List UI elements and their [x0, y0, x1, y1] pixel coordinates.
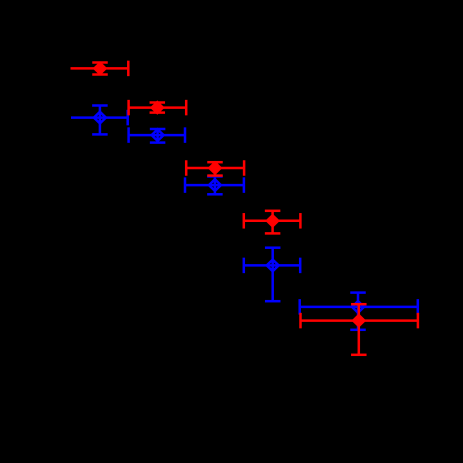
red series point 1 x-error bar: [71, 61, 129, 77]
blue series point 2 y-error bar: [150, 129, 166, 143]
red series point 5 y-error bar: [351, 304, 367, 355]
red filled diamond marker 1: [93, 61, 108, 75]
blue open diamond marker 5: [352, 301, 364, 313]
blue open diamond marker 2: [152, 129, 164, 141]
red filled diamond marker 3: [208, 161, 223, 175]
red filled diamond marker 5: [351, 313, 366, 327]
red series point 5 x-error bar: [301, 313, 418, 329]
red series point 4 y-error bar: [265, 211, 281, 234]
blue series point 2 x-error bar: [129, 127, 185, 143]
blue series point 5 x-error bar: [300, 299, 418, 315]
red series point 2 x-error bar: [129, 100, 187, 116]
red filled diamond marker 4: [265, 214, 280, 228]
red series point 3 x-error bar: [186, 160, 244, 176]
blue series point 4 y-error bar: [265, 248, 281, 302]
blue series point 4 x-error bar: [244, 258, 300, 274]
red series point 1 y-error bar: [92, 63, 108, 75]
blue series point 3 x-error bar: [185, 177, 244, 193]
red series point 2 y-error bar: [150, 103, 166, 113]
red series point 3 y-error bar: [207, 162, 223, 175]
blue series point 1 y-error bar: [92, 106, 108, 135]
blue series point 5 y-error bar: [350, 293, 366, 330]
blue series point 3 y-error bar: [207, 176, 223, 194]
red filled diamond marker 2: [150, 100, 165, 114]
blue open diamond marker 1: [94, 112, 106, 124]
blue open diamond marker 3: [209, 179, 221, 191]
blue open diamond marker 4: [267, 260, 279, 272]
blue series point 1 x-error bar: [71, 110, 128, 126]
red series point 4 x-error bar: [244, 213, 301, 229]
